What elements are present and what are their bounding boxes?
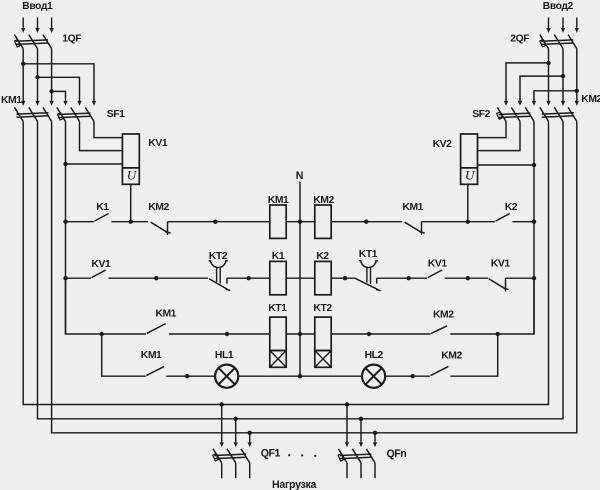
junction row2 a bbox=[154, 276, 158, 280]
circuit breaker 2QF bbox=[540, 35, 577, 49]
svg-text:KM1: KM1 bbox=[141, 350, 162, 361]
junction row1 right feed bbox=[532, 220, 536, 224]
coil KM2 bbox=[315, 205, 331, 238]
wire tap A to SF1 pole 3 bbox=[23, 64, 94, 101]
contact K2 NO bbox=[496, 214, 510, 222]
svg-text:N: N bbox=[296, 170, 304, 182]
label SF2 bbox=[472, 109, 490, 120]
svg-text:K2: K2 bbox=[316, 251, 329, 262]
wire left control feed down bbox=[65, 164, 67, 334]
wire row1 left segment bbox=[66, 221, 94, 223]
junction row4 b bbox=[411, 374, 415, 378]
wire phase C to bus 3 bbox=[52, 121, 577, 432]
wire row4 KM1 to lamp HL1 bbox=[166, 375, 215, 377]
label KM2 on row3 bbox=[433, 309, 454, 320]
wire SF1 pole2 to KV1 pin2 bbox=[80, 121, 123, 150]
junction phase B tap bbox=[35, 75, 39, 79]
junction QF1 pole1 on bus1 bbox=[220, 402, 224, 406]
breaker SF1 bbox=[57, 101, 96, 122]
label KT2 coil bbox=[313, 303, 332, 314]
svg-text:U: U bbox=[127, 168, 138, 183]
wire row2 right segment bbox=[506, 277, 535, 279]
label HL1 bbox=[215, 350, 234, 361]
feeder breaker QFn bbox=[338, 449, 375, 478]
wire SF2 pole1 to KV2 pin1 bbox=[478, 121, 507, 137]
feeder breaker QF1 bbox=[213, 449, 250, 478]
junction row2 e bbox=[466, 276, 470, 280]
wire tap A2 to SF2 pole 1 bbox=[506, 63, 549, 101]
wire KT1 coil to N bbox=[286, 333, 315, 335]
label KM1 coil bbox=[268, 195, 289, 206]
svg-text:Нагрузка: Нагрузка bbox=[272, 479, 317, 490]
wire tap B2 to SF2 pole 2 bbox=[520, 76, 563, 101]
label KM2 coil bbox=[313, 195, 334, 206]
wire phase B after 1QF bbox=[37, 49, 39, 102]
wire KV2 coil bottom to row1 bbox=[467, 184, 469, 221]
junction row1 a bbox=[213, 220, 217, 224]
wire QF1 pole1 drop bbox=[220, 405, 224, 448]
wire phase B after 2QF bbox=[562, 49, 564, 102]
contact KM1 NC bbox=[405, 222, 425, 235]
svg-text:Ввод2: Ввод2 bbox=[543, 1, 574, 12]
junction phase C2 tap bbox=[575, 89, 579, 93]
label QFn bbox=[387, 448, 407, 460]
svg-text:KM1: KM1 bbox=[1, 95, 22, 106]
wire phase C after 2QF bbox=[576, 49, 578, 102]
label QF1 bbox=[261, 448, 281, 460]
coil KT1 with time element bbox=[270, 317, 286, 367]
label K2 coil bbox=[316, 251, 329, 262]
junction KV2 drop on row1 bbox=[466, 220, 470, 224]
svg-text:KV1: KV1 bbox=[491, 259, 511, 270]
junction N row1 bbox=[298, 220, 302, 224]
label KM2 on row1 bbox=[148, 202, 169, 213]
junction row2 right feed bbox=[532, 276, 536, 280]
wire QF1 pole2 drop bbox=[234, 419, 238, 447]
svg-text:KT2: KT2 bbox=[209, 251, 228, 262]
wire phase B to bus 2 bbox=[38, 121, 564, 418]
label Нагрузка (load) bbox=[272, 479, 317, 490]
junction row1 left feed bbox=[63, 220, 67, 224]
label U in KV2 bbox=[465, 168, 476, 183]
breaker SF2 bbox=[497, 101, 536, 122]
junction phase A tap bbox=[21, 62, 25, 66]
wire row3 left corner segment bbox=[66, 278, 147, 334]
contact KV1 NC bbox=[489, 278, 509, 291]
contact KM2 NO row3 bbox=[431, 326, 447, 334]
wire row1 right segment bbox=[513, 221, 535, 223]
label KM1 on row3 bbox=[155, 308, 176, 319]
junction QFn pole2 on bus2 bbox=[359, 417, 363, 421]
svg-text:KT1: KT1 bbox=[268, 303, 287, 314]
svg-text:KV2: KV2 bbox=[433, 139, 453, 150]
svg-text:KV1: KV1 bbox=[428, 259, 448, 270]
wire KT2 coil to KM2 contact bbox=[331, 333, 430, 335]
contact KM1 NO row3 bbox=[147, 324, 166, 334]
junction phase A2 tap bbox=[546, 61, 550, 65]
junction lamp branch left bbox=[100, 332, 104, 336]
wire QFn pole2 drop bbox=[359, 419, 363, 447]
junction control feed 1 bbox=[63, 162, 67, 166]
label KM1 on row1 right bbox=[402, 202, 423, 213]
label KT1 on row2 bbox=[359, 249, 378, 260]
contact KM2 NO row4 bbox=[431, 366, 449, 375]
label KT1 coil bbox=[268, 303, 287, 314]
junction lamp branch right bbox=[496, 332, 500, 336]
svg-text:2QF: 2QF bbox=[510, 34, 529, 45]
svg-text:KV1: KV1 bbox=[91, 259, 111, 270]
coil KM1 bbox=[270, 205, 286, 238]
svg-text:1QF: 1QF bbox=[62, 34, 81, 45]
junction KV1 drop on row1 bbox=[129, 220, 133, 224]
junction row3 a bbox=[225, 332, 229, 336]
wire row2 to KV1 NC contact bbox=[445, 277, 488, 279]
label N bbox=[296, 170, 304, 182]
svg-text:KM2: KM2 bbox=[433, 309, 454, 320]
contact K1 NO bbox=[94, 214, 108, 222]
svg-text:KT2: KT2 bbox=[313, 303, 332, 314]
wire row4 right corner segment bbox=[450, 334, 497, 376]
junction QF1 pole3 on bus3 bbox=[248, 431, 252, 435]
wire SF2 pole3 to KV2 pin3 bbox=[478, 121, 535, 165]
wire right control feed down bbox=[533, 165, 535, 334]
svg-text:HL1: HL1 bbox=[215, 350, 234, 361]
wire QFn pole1 drop bbox=[345, 405, 349, 448]
net Ввод1 label bbox=[22, 1, 53, 12]
label 2QF bbox=[510, 34, 529, 45]
label KM2 bbox=[581, 94, 600, 105]
wire row2 KT2 to K1 coil bbox=[227, 277, 270, 279]
wire row3 right corner segment bbox=[450, 278, 534, 334]
wire K1 coil across N to K2 coil bbox=[286, 277, 315, 279]
label KM1 bbox=[1, 95, 22, 106]
svg-text:HL2: HL2 bbox=[365, 350, 384, 361]
wire QF1 pole3 drop bbox=[248, 433, 252, 447]
wire row3 KM1 to KT1 coil bbox=[169, 333, 270, 335]
svg-text:KT1: KT1 bbox=[359, 249, 378, 260]
svg-text:SF1: SF1 bbox=[107, 109, 125, 120]
contact KT2 time-delay NC bbox=[209, 261, 231, 291]
svg-text:KM2: KM2 bbox=[148, 202, 169, 213]
junction QFn pole1 on bus1 bbox=[345, 402, 349, 406]
svg-text:Ввод1: Ввод1 bbox=[22, 1, 53, 12]
wire phase A to bus 1 bbox=[23, 121, 548, 404]
lamp HL2 bbox=[362, 365, 385, 388]
label KM2 on row4 bbox=[441, 350, 462, 361]
svg-text:KM1: KM1 bbox=[155, 308, 176, 319]
svg-text:KM2: KM2 bbox=[441, 350, 462, 361]
svg-text:KM1: KM1 bbox=[402, 202, 423, 213]
contact KM1 NO row4 bbox=[146, 366, 164, 375]
wire phase A after 2QF bbox=[548, 49, 550, 102]
label KT2 on row2 bbox=[209, 251, 228, 262]
svg-text:KM1: KM1 bbox=[268, 195, 289, 206]
wire tap C2 to SF2 pole 3 bbox=[534, 91, 577, 101]
contactor KM1 main contacts bbox=[15, 101, 54, 122]
wire row2 KT1 to KV1 contact bbox=[377, 277, 428, 279]
contact KM2 NC bbox=[151, 222, 171, 235]
junction QF1 pole2 on bus2 bbox=[234, 417, 238, 421]
wire row2 left segment bbox=[66, 277, 91, 279]
svg-text:KM2: KM2 bbox=[581, 94, 600, 105]
ellipsis dots bbox=[288, 454, 316, 457]
contact KT1 time-delay NC bbox=[356, 261, 381, 291]
junction N row3 bbox=[298, 332, 302, 336]
svg-text:SF2: SF2 bbox=[472, 109, 490, 120]
junction row3 b bbox=[367, 332, 371, 336]
junction QFn pole3 on bus3 bbox=[373, 431, 377, 435]
wire KV1 coil bottom to row1 bbox=[130, 184, 132, 221]
label K2 bbox=[505, 202, 518, 213]
svg-text:QFn: QFn bbox=[387, 448, 407, 460]
wire row4 left corner segment bbox=[102, 334, 146, 376]
wire input2 phase leads with arrows bbox=[546, 18, 579, 34]
wire row1 K1 to KM2 contact bbox=[111, 221, 147, 223]
label KM1 on row4 bbox=[141, 350, 162, 361]
label HL2 bbox=[365, 350, 384, 361]
voltage relay KV2 box bbox=[461, 134, 478, 184]
wire row2 KV1 to KT2 contact bbox=[109, 277, 209, 279]
label SF1 bbox=[107, 109, 125, 120]
wire phase C after 1QF bbox=[51, 49, 53, 102]
label KV2 bbox=[433, 139, 453, 150]
junction phase C tap bbox=[49, 89, 53, 93]
wire tap C to SF1 pole 1 bbox=[52, 91, 66, 101]
wire QFn pole3 drop bbox=[373, 433, 377, 447]
junction phase B2 tap bbox=[561, 74, 565, 78]
contact KV1 NO bbox=[92, 270, 106, 278]
coil K2 bbox=[315, 261, 331, 294]
net Ввод2 label bbox=[543, 1, 574, 12]
wire neutral N vertical bbox=[299, 182, 301, 377]
svg-text:KM2: KM2 bbox=[313, 195, 334, 206]
svg-text:U: U bbox=[465, 168, 476, 183]
label K1 bbox=[96, 202, 109, 213]
coil K1 bbox=[270, 261, 286, 294]
wire input1 phase leads with arrows bbox=[21, 18, 54, 34]
wire SF1 pole3 to KV1 pin1 bbox=[94, 121, 122, 137]
label KV1 bbox=[148, 138, 168, 149]
lamp HL1 bbox=[215, 365, 238, 388]
wire K2 coil to KT1 contact bbox=[331, 277, 355, 279]
wire row4 HL2 to KM2 contact bbox=[385, 375, 430, 377]
svg-text:K1: K1 bbox=[272, 251, 285, 262]
wire KM2 coil to KM1 contact bbox=[331, 221, 402, 223]
junction row1 b bbox=[364, 220, 368, 224]
label KV1 on row2 bbox=[91, 259, 111, 270]
circuit breaker 1QF bbox=[15, 35, 52, 49]
junction row2 d bbox=[407, 276, 411, 280]
wire row1 to KM1 coil bbox=[168, 221, 270, 223]
wire SF2 pole2 to KV2 pin2 bbox=[478, 121, 521, 150]
wire KM1 coil to N bbox=[286, 221, 315, 223]
svg-text:K2: K2 bbox=[505, 202, 518, 213]
label K1 coil bbox=[272, 251, 285, 262]
junction row4 a bbox=[185, 374, 189, 378]
coil KT2 with time element bbox=[315, 317, 331, 367]
wire SF1 pole1 to KV1 pin3 bbox=[66, 121, 123, 164]
wire tap B to SF1 pole 2 bbox=[38, 77, 80, 101]
svg-text:QF1: QF1 bbox=[261, 448, 281, 460]
label KV1 on row2 middle bbox=[428, 259, 448, 270]
svg-text:KV1: KV1 bbox=[148, 138, 168, 149]
label U in KV1 bbox=[127, 168, 138, 183]
label KV1 on row2 right bbox=[491, 259, 511, 270]
wire row1 KM1 contact to K2 bbox=[422, 221, 495, 223]
label 1QF bbox=[62, 34, 81, 45]
junction N end on row4 bbox=[298, 374, 302, 378]
voltage relay KV1 box bbox=[122, 134, 139, 184]
svg-text:K1: K1 bbox=[96, 202, 109, 213]
contactor KM2 main contacts bbox=[540, 101, 579, 122]
junction control feed 2 bbox=[532, 163, 536, 167]
contact KV1 NO second bbox=[428, 270, 442, 278]
wire row4 HL1 to HL2 bbox=[238, 375, 362, 377]
junction row2 b bbox=[247, 276, 251, 280]
junction row2 left feed bbox=[63, 276, 67, 280]
wire phase A after 1QF bbox=[22, 49, 24, 102]
junction row2 c bbox=[343, 276, 347, 280]
